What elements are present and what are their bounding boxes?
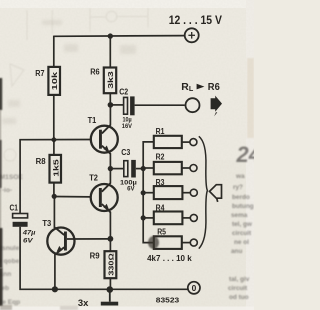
ground — [101, 290, 118, 306]
node bus-C3 — [141, 166, 146, 171]
transistor T1 — [91, 125, 118, 154]
resistor R6 — [104, 68, 116, 94]
svg-text:R8: R8 — [36, 157, 47, 166]
switch range brace — [199, 136, 208, 248]
svg-text:tel, gw: tel, gw — [232, 221, 252, 228]
svg-text:1k5: 1k5 — [51, 159, 60, 177]
ghost print-through upper schematic — [27, 8, 148, 40]
wire T2 emitter to R9 node — [109, 212, 111, 239]
wire C3 to ladder bus — [136, 168, 143, 170]
svg-text:is eb: is eb — [0, 285, 9, 292]
dark scan streak left edge — [0, 110, 1, 230]
node bus-R3 — [141, 190, 146, 195]
ghost text right column — [228, 173, 254, 301]
svg-text:wa: wa — [235, 173, 245, 180]
wire T3 base line — [67, 238, 110, 240]
svg-text:od tuo: od tuo — [229, 294, 249, 301]
ghost speaker mark left — [4, 64, 24, 161]
wire R6 bottom to C2 node — [109, 93, 111, 105]
svg-text:butung: butung — [232, 203, 254, 210]
paper noise — [0, 0, 1, 1]
svg-text:ry?: ry? — [233, 184, 243, 191]
svg-text:0: 0 — [192, 283, 197, 293]
wire R7 top drop — [53, 36, 55, 67]
resistor R5 — [154, 236, 198, 249]
transistor T2 — [91, 183, 118, 212]
node R9 / T3 base junction — [108, 236, 114, 242]
svg-text:R2: R2 — [156, 153, 165, 162]
capacitor C2 — [124, 96, 135, 115]
wire T1 collector — [109, 105, 111, 125]
node rail junction — [108, 33, 113, 38]
resistor R7 — [48, 67, 60, 95]
wire T1 emitter to C3 node — [109, 154, 111, 169]
svg-text:330Ω: 330Ω — [107, 253, 116, 276]
svg-text:R6: R6 — [208, 82, 220, 93]
wire bus to R2 — [143, 167, 154, 169]
resistor R1 — [154, 136, 197, 148]
zero terminal — [188, 282, 200, 294]
resistor R2 — [154, 162, 197, 174]
wire T3 emitter drop — [54, 254, 56, 289]
wire C1 to ground rail — [20, 227, 188, 289]
svg-text:ne qobe: ne qobe — [0, 258, 20, 265]
paper background — [0, 0, 254, 310]
bottom scan strip — [0, 307, 254, 310]
resistor R9 — [105, 251, 117, 278]
svg-text:sema: sema — [231, 212, 248, 219]
wire R7 bottom to base junction — [53, 95, 55, 140]
svg-text:n -io-: n -io- — [0, 187, 12, 194]
node emitter-ground junction — [52, 286, 58, 292]
wire R9 bottom — [109, 278, 111, 289]
output terminal RL — [186, 98, 200, 112]
svg-text:circuit: circuit — [232, 230, 252, 237]
label RL > R6 — [181, 82, 220, 93]
wire T1 base line — [20, 140, 90, 214]
wire R8 top — [53, 140, 55, 155]
resistor R4 — [154, 212, 198, 225]
wire T3 collector riser — [53, 196, 55, 228]
svg-text:3k3: 3k3 — [106, 71, 115, 89]
svg-text:T1: T1 — [88, 116, 97, 125]
node C2 junction — [108, 102, 114, 108]
node C3 junction — [108, 166, 113, 171]
smudge on R5 — [148, 236, 159, 249]
wire R9 top — [109, 239, 111, 251]
svg-text:R7: R7 — [35, 69, 44, 78]
capacitor C1 — [13, 214, 28, 227]
transistor T3 (mirrored) — [47, 228, 74, 255]
wire node to C2 — [110, 104, 123, 106]
svg-text:e cnn: e cnn — [0, 271, 11, 278]
capacitor C3 — [124, 160, 136, 178]
svg-text:C1: C1 — [10, 203, 19, 212]
svg-text:T3: T3 — [42, 219, 52, 228]
svg-text:R4: R4 — [156, 204, 165, 213]
wire T2 collector — [109, 169, 111, 184]
switch wiper arrow — [210, 185, 222, 202]
svg-text:R6: R6 — [90, 68, 100, 77]
svg-text:R3: R3 — [156, 178, 165, 187]
svg-text:16V: 16V — [122, 123, 133, 130]
wire C2 to RL terminal — [135, 104, 185, 106]
svg-text:C2: C2 — [119, 87, 129, 96]
svg-text:83523: 83523 — [156, 295, 179, 304]
svg-text:o tsnule: o tsnule — [0, 245, 20, 252]
wire node to C3 — [110, 168, 123, 170]
svg-text:6V: 6V — [23, 237, 34, 244]
svg-text:10k: 10k — [50, 72, 59, 90]
svg-text:4k7 . . . 10 k: 4k7 . . . 10 k — [147, 254, 192, 263]
svg-text:R1: R1 — [156, 127, 165, 136]
svg-text:6V: 6V — [127, 186, 135, 193]
resistor R3 — [154, 186, 198, 199]
wire R6 top drop — [109, 36, 111, 67]
node ground junction — [107, 286, 114, 293]
wire top rail — [54, 35, 184, 38]
svg-text:12 . . . 15 V: 12 . . . 15 V — [169, 15, 222, 27]
svg-text:T2: T2 — [89, 173, 98, 182]
svg-text:ute Eqp: ute Eqp — [0, 299, 20, 306]
svg-text:C3: C3 — [121, 148, 131, 157]
wire T2 base line — [54, 196, 90, 198]
svg-text:RL: RL — [181, 82, 194, 93]
node T1 base junction — [51, 136, 58, 143]
svg-text:berdo: berdo — [232, 194, 250, 201]
svg-text:anu: anu — [231, 248, 242, 255]
output arrow (solid) — [211, 96, 222, 117]
wire bus to R3 — [143, 192, 154, 194]
svg-text:circuit: circuit — [228, 285, 248, 292]
ghost text left column — [0, 174, 23, 306]
wire R8 bottom — [53, 183, 55, 197]
ladder bus wire — [143, 142, 154, 243]
node bus-R4 — [141, 215, 146, 220]
svg-text:ne ol: ne ol — [234, 239, 249, 246]
svg-text:R9: R9 — [90, 251, 101, 260]
supply terminal + — [185, 28, 199, 42]
svg-text:tal, giv: tal, giv — [229, 276, 250, 283]
wire bus to R4 — [143, 217, 154, 219]
svg-text:24: 24 — [236, 142, 255, 167]
svg-text:R5: R5 — [157, 228, 166, 237]
node T2 base junction — [52, 194, 57, 199]
resistor R8 — [50, 155, 62, 183]
svg-text:47µ: 47µ — [22, 230, 36, 237]
